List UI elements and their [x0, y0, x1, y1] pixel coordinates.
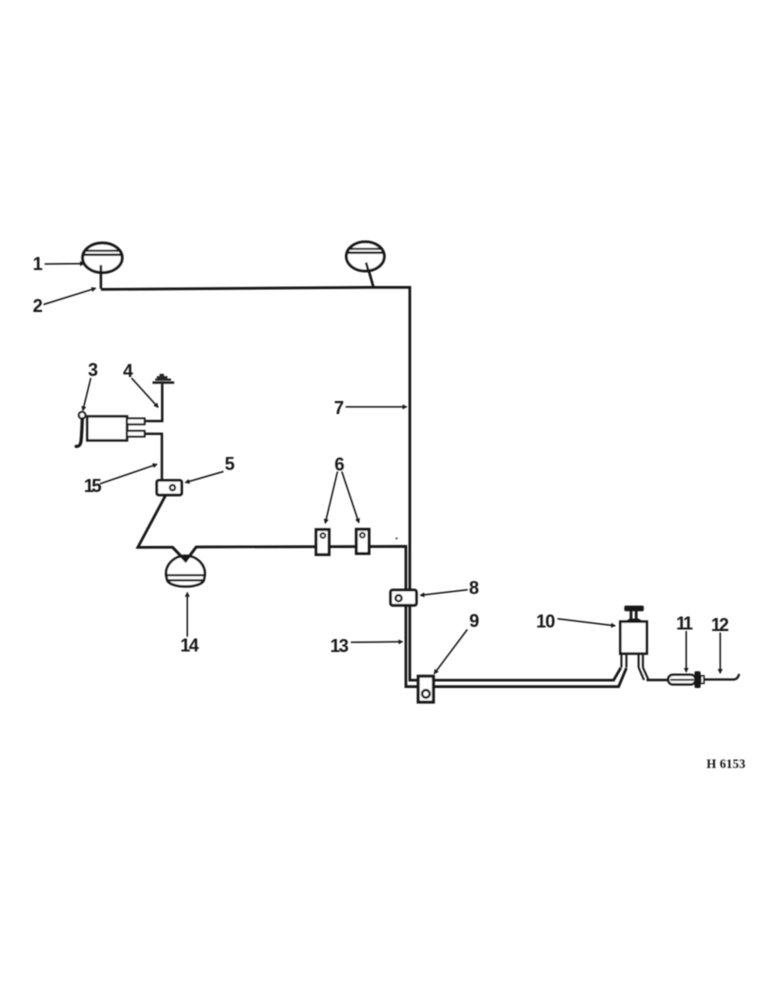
label 6 with two leaders [325, 454, 359, 523]
svg-text:8: 8 [469, 578, 479, 598]
label 9 [434, 611, 479, 673]
switch 3 (light switch with lever) [76, 412, 144, 447]
switch 10 (toggle with T-handle) [620, 606, 647, 668]
label 2 [33, 288, 96, 316]
lamp 14 (small lamp under wire) [166, 556, 205, 587]
svg-text:4: 4 [123, 361, 133, 381]
label 4 [123, 361, 158, 407]
wire: right leg flare of switch 10 to connector [639, 668, 669, 681]
wire: diagonal from clip 5 down to bottom wire, with V drop into lamp 14, across clips 6, down and along bottom [138, 496, 627, 687]
wire: ground wire down to switch top terminal [145, 384, 163, 421]
svg-text:11: 11 [676, 613, 693, 633]
wire: lamp 1 stem [100, 264, 103, 289]
ground symbol (item 4 target) [153, 374, 175, 384]
svg-text:2: 2 [33, 296, 43, 316]
clip 6 (left) [316, 530, 329, 555]
svg-text:5: 5 [225, 454, 235, 474]
wire: V tip into lamp 14 [173, 547, 197, 561]
clip 5 [157, 480, 182, 495]
label 5 [186, 454, 235, 482]
clamp 8 on vertical wires [391, 590, 417, 605]
wire: lamp 2 stem [366, 262, 373, 287]
svg-text:3: 3 [88, 360, 98, 380]
connector body 11 [668, 675, 695, 685]
label 1 [33, 254, 84, 274]
svg-text:12: 12 [711, 615, 729, 635]
lamp 1 (headlamp, top left) [83, 243, 123, 273]
label 12 [711, 615, 729, 673]
scan speck [396, 537, 398, 539]
svg-text:10: 10 [536, 612, 555, 632]
svg-text:15: 15 [84, 476, 102, 496]
wire: tail to the right with upward hook [704, 674, 739, 680]
label 7 [334, 398, 407, 418]
bracket 9 at bottom corner [418, 676, 433, 702]
svg-text:13: 13 [330, 636, 349, 656]
svg-text:H 6153: H 6153 [706, 757, 745, 771]
svg-text:6: 6 [334, 454, 344, 474]
label 10 [536, 612, 615, 632]
svg-text:9: 9 [469, 611, 479, 631]
svg-text:1: 1 [33, 254, 43, 274]
label 15 [84, 464, 157, 496]
label 11 [676, 613, 693, 672]
wire 15: from switch bottom terminal right then down to clip 5 [145, 434, 162, 481]
label 3 [83, 360, 98, 410]
wire: main harness from lamp 1 across top, down right side, to bottom run [101, 287, 621, 680]
svg-text:7: 7 [334, 398, 344, 418]
label 13 [330, 636, 402, 656]
lamp 2 (headlamp, top middle) [346, 242, 384, 271]
label 8 [421, 578, 480, 598]
clamp ring 12 [695, 671, 704, 688]
label 14 [180, 593, 199, 656]
svg-text:14: 14 [180, 636, 199, 656]
clip 6 (right) [356, 529, 369, 553]
